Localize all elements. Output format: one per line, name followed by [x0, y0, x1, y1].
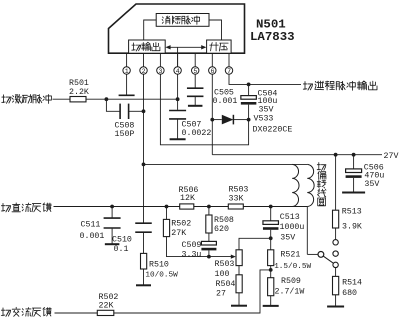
wire to R509	[270, 266, 272, 278]
resistor R501	[70, 97, 86, 102]
label R510	[145, 260, 178, 279]
svg-text:3: 3	[159, 68, 163, 75]
label R503 100	[215, 260, 235, 279]
wire pin7-node down to C504	[248, 84, 250, 95]
svg-text:R502: R502	[171, 219, 191, 228]
svg-text:7: 7	[227, 68, 231, 75]
wiper arrow to R503 pot	[209, 255, 236, 259]
wire pin2-node to deflection coil (top)	[144, 163, 308, 165]
node junction pin2/coil wire	[142, 163, 146, 167]
ground for R514	[327, 306, 344, 308]
capacitor C511	[104, 207, 121, 244]
ground for R509	[263, 305, 279, 307]
label C513	[280, 213, 305, 243]
svg-text:0.1: 0.1	[114, 245, 129, 254]
svg-text:C508: C508	[115, 122, 135, 131]
wire node A down-right to C508	[106, 99, 119, 111]
wire input to R501	[53, 98, 71, 100]
svg-text:0.001: 0.001	[80, 232, 105, 241]
capacitor C505	[187, 88, 204, 105]
wire R504 to ground	[238, 293, 240, 305]
svg-text:C513: C513	[280, 213, 300, 222]
svg-text:C510: C510	[112, 236, 132, 245]
inductor L1 field deflection coil	[292, 164, 314, 206]
svg-text:R521: R521	[280, 251, 300, 260]
svg-text:C507: C507	[182, 120, 202, 129]
wire node A to pin4 line	[106, 98, 177, 100]
label 27V	[384, 152, 399, 161]
wire node to C513	[270, 207, 272, 221]
IC internal block: blanking-pulse box	[156, 14, 209, 27]
wire pin2 down to C510	[143, 74, 145, 222]
wire pin4 down	[177, 74, 179, 110]
svg-text:C505: C505	[214, 88, 234, 97]
diode V533	[212, 115, 248, 125]
resistor R508	[206, 215, 212, 233]
svg-text:3.3u: 3.3u	[182, 250, 202, 259]
wire R514 to ground	[335, 295, 337, 306]
wire rail to C506	[353, 155, 355, 169]
label R513	[342, 208, 362, 232]
node junction R508	[207, 205, 211, 209]
wire riser to switch pole	[307, 253, 318, 255]
wire C510 to R510	[143, 233, 145, 254]
wire R502-27K down/right	[167, 237, 209, 257]
wire C513 to node B	[270, 230, 272, 239]
wire blanking->output	[144, 20, 157, 40]
IC internal block: boost box	[207, 40, 232, 53]
capacitor C504 (electrolytic)	[241, 96, 257, 105]
label field-DC-feedback	[1, 203, 51, 212]
svg-text:6: 6	[210, 68, 214, 75]
label C505	[213, 88, 238, 106]
label LA7833	[250, 30, 295, 44]
node A junction	[105, 97, 109, 101]
node junction rail/C506	[352, 153, 356, 157]
wire R503 to R504	[238, 266, 240, 275]
wire DC feedback main	[54, 206, 308, 208]
svg-text:35V: 35V	[280, 234, 295, 243]
svg-text:R508: R508	[214, 216, 234, 225]
svg-text:4: 4	[176, 68, 180, 75]
wire pin5 down	[194, 74, 196, 88]
resistor R502 27K	[163, 219, 169, 236]
svg-text:2.7/1W: 2.7/1W	[275, 287, 305, 297]
wire R510 to ground	[143, 269, 145, 285]
wire R513 to contact	[335, 228, 337, 240]
resistor R513	[333, 210, 339, 228]
svg-text:10/0.5W: 10/0.5W	[145, 272, 178, 280]
wire node B to R521	[270, 238, 272, 250]
svg-text:DX0220CE: DX0220CE	[253, 126, 293, 135]
wire pin6 down to 27V rail	[211, 74, 213, 155]
resistor R503 33K	[228, 204, 243, 209]
ground for C511	[105, 243, 120, 245]
node junction C508/pin2	[142, 109, 146, 113]
svg-text:27V: 27V	[384, 152, 399, 161]
label V533	[253, 114, 293, 134]
node junction C513 bottom	[269, 236, 273, 240]
label field-deflection-coil	[317, 163, 326, 206]
label R514	[342, 278, 362, 298]
IC internal block: vertical-output box	[129, 40, 166, 53]
wire blanking->boost	[209, 20, 222, 40]
node junction R502-27K	[165, 205, 169, 209]
svg-text:0.0022: 0.0022	[182, 129, 212, 138]
resistor R506	[180, 204, 194, 209]
IC pins 1-7 (numbered circles)	[123, 53, 233, 75]
svg-text:33K: 33K	[229, 194, 244, 203]
wire C506 to ground	[353, 178, 355, 192]
resistor R502 22K	[97, 310, 114, 315]
ground for C506	[342, 192, 365, 194]
double arrow output<->boost	[165, 45, 206, 49]
wire AC feedback left	[55, 312, 98, 314]
node junction at pin4/wire	[176, 97, 180, 101]
resistor R509	[268, 278, 274, 296]
label R509	[275, 277, 305, 296]
resistor R521	[268, 250, 274, 266]
svg-text:2.2K: 2.2K	[69, 88, 89, 97]
svg-text:5: 5	[193, 68, 197, 75]
svg-text:R504: R504	[216, 280, 236, 289]
svg-text:R509: R509	[281, 277, 301, 286]
svg-text:150P: 150P	[115, 130, 135, 139]
capacitor C507	[169, 111, 186, 139]
label R504	[216, 280, 236, 298]
resistor R510	[141, 253, 147, 269]
svg-text:27K: 27K	[171, 229, 186, 238]
node junction diode anode	[210, 118, 214, 122]
resistor R514	[333, 276, 339, 294]
ground for C507	[170, 138, 186, 140]
svg-text:R503: R503	[229, 186, 249, 195]
svg-text:35V: 35V	[259, 105, 274, 114]
label C509	[182, 241, 202, 259]
wire R501 to node A	[86, 98, 106, 100]
label C507	[182, 120, 212, 138]
capacitor C506 (electrolytic)	[346, 169, 362, 178]
label C508	[115, 122, 135, 140]
op-amp/IC U1 N501 LA7833 outline	[109, 4, 245, 53]
node junction wiper	[207, 255, 211, 259]
resistor R503 100 (pot)	[236, 250, 242, 266]
capacitor C509 (electrolytic)	[201, 241, 216, 250]
node junction C513/coil	[269, 205, 273, 209]
wire rail to R513	[335, 155, 337, 211]
node junction pin7/C504	[247, 83, 251, 87]
ground for R504	[231, 305, 247, 307]
svg-text:100: 100	[215, 270, 230, 279]
label field-drive-pulse input	[2, 95, 52, 104]
switch S1 (vertical size select)	[318, 240, 338, 268]
capacitor C508	[120, 104, 143, 119]
svg-text:R503: R503	[215, 260, 235, 269]
wire R509 to ground	[270, 296, 272, 306]
svg-text:1000u: 1000u	[280, 223, 305, 232]
label R508	[214, 216, 234, 234]
label C510	[112, 236, 132, 255]
ground for R510	[136, 284, 151, 286]
svg-text:22K: 22K	[99, 302, 114, 311]
svg-text:C511: C511	[81, 220, 101, 229]
svg-text:V533: V533	[254, 114, 274, 123]
node junction C511	[110, 205, 114, 209]
label R501	[69, 79, 89, 97]
wire C509 to node	[208, 250, 210, 256]
label R503 33K	[229, 186, 249, 204]
svg-text:2: 2	[142, 68, 146, 75]
svg-text:R510: R510	[149, 260, 169, 269]
node junction R521/R509	[269, 268, 273, 272]
label C511	[80, 220, 105, 240]
svg-text:R514: R514	[342, 278, 362, 287]
wire C513-node to R503 top	[239, 238, 271, 250]
wire arrow-line to pin4	[177, 47, 179, 67]
svg-text:LA7833: LA7833	[250, 30, 295, 44]
svg-text:0.001: 0.001	[213, 97, 238, 106]
label C504	[258, 90, 278, 115]
label C506	[364, 163, 385, 189]
svg-text:1: 1	[125, 68, 129, 75]
svg-text:R501: R501	[69, 79, 89, 88]
label R506	[179, 186, 199, 203]
resistor R504	[236, 275, 242, 293]
node junction rail/R513	[334, 153, 338, 157]
svg-text:27: 27	[216, 290, 226, 299]
label field-retrace-pulse output	[303, 81, 377, 90]
wire pin3 down/right to boost node	[160, 74, 248, 145]
capacitor C510	[135, 223, 152, 232]
svg-text:12K: 12K	[180, 194, 195, 203]
node junction diode cathode/C504	[247, 118, 251, 122]
wire node to R508	[208, 207, 210, 216]
svg-text:680: 680	[342, 289, 357, 298]
wire pin7 to retrace output	[229, 74, 301, 84]
capacitor C513 (electrolytic)	[263, 221, 279, 230]
label N501	[256, 17, 286, 31]
capacitor at pin1 (plate to wire)	[119, 74, 135, 95]
wire 27V rail	[212, 154, 382, 156]
wire R508 to C509	[208, 233, 210, 241]
wire C504 to diode cathode	[248, 105, 250, 120]
wire node to R502-27K	[166, 207, 168, 220]
svg-text:R513: R513	[342, 208, 362, 217]
label field-AC-feedback	[1, 307, 51, 316]
svg-text:3.9K: 3.9K	[342, 222, 362, 231]
wire contact to R514	[335, 268, 337, 277]
svg-text:35V: 35V	[364, 180, 379, 189]
svg-text:1.5/0.5W: 1.5/0.5W	[274, 263, 311, 271]
label R502 22K	[99, 293, 119, 311]
svg-text:620: 620	[214, 225, 229, 234]
label R521	[274, 251, 311, 271]
svg-text:C509: C509	[182, 241, 202, 250]
label R502 27K	[171, 219, 191, 237]
ground for C505	[188, 105, 203, 107]
wire coil bottom to switch riser	[306, 207, 308, 255]
wire AC feedback to R521/R509 node	[114, 270, 271, 313]
